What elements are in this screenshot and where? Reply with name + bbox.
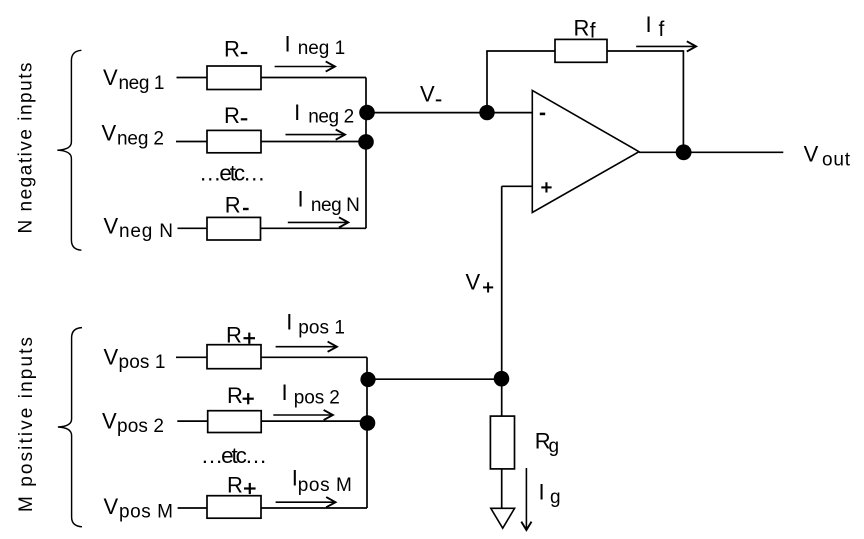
wire R+ row 1 to bus	[261, 356, 367, 358]
svg-text:pos M: pos M	[119, 502, 173, 523]
svg-text:neg N: neg N	[119, 221, 173, 242]
label R_g	[535, 429, 559, 458]
op-amp U1	[532, 90, 639, 212]
svg-text:…etc…: …etc…	[199, 161, 266, 186]
brace N negative inputs	[57, 50, 81, 250]
svg-text:V: V	[466, 270, 481, 295]
label V_neg 1	[103, 65, 165, 94]
svg-text:R: R	[224, 103, 240, 128]
label I_g	[539, 479, 561, 508]
wire bus negative section	[365, 78, 367, 229]
resistor R- row N	[207, 217, 261, 240]
label V- node	[420, 82, 441, 107]
resistor R- row 2	[207, 130, 261, 152]
svg-text:V: V	[804, 142, 819, 167]
label V+ node	[466, 270, 494, 295]
svg-text:neg N: neg N	[311, 195, 360, 216]
wire feedback top left	[486, 50, 555, 52]
svg-text:R: R	[226, 323, 242, 348]
wire V_neg 1 input	[177, 77, 208, 79]
wire R+ row 2 to bus	[261, 420, 367, 422]
svg-text:R: R	[227, 383, 243, 408]
junction dot bus row 2	[358, 134, 374, 150]
svg-text:pos M: pos M	[298, 475, 352, 496]
svg-text:neg 1: neg 1	[298, 38, 346, 59]
label R- row N	[225, 192, 249, 217]
junction dot V+	[494, 371, 510, 387]
svg-text:pos 1: pos 1	[298, 318, 345, 339]
junction dot bus top	[359, 105, 375, 121]
svg-text:pos 2: pos 2	[117, 416, 164, 437]
svg-text:V: V	[104, 494, 119, 519]
svg-text:V: V	[102, 121, 117, 146]
op-amp minus input mark	[540, 113, 545, 116]
svg-text:I: I	[285, 31, 291, 56]
brace M positive inputs	[58, 328, 82, 527]
wire R- row 2 to bus	[261, 141, 366, 143]
wire feedback top right	[607, 50, 683, 52]
label V_pos M	[104, 494, 174, 523]
ground	[491, 508, 515, 528]
label I_pos 2	[282, 380, 340, 409]
resistor R+ row M	[207, 496, 261, 519]
resistor R_g	[490, 416, 514, 469]
svg-text:R: R	[224, 37, 240, 62]
svg-text:R: R	[574, 15, 590, 40]
svg-text:neg 2: neg 2	[308, 106, 354, 127]
svg-text:g: g	[549, 436, 560, 457]
svg-text:R: R	[227, 473, 243, 498]
svg-text:V: V	[420, 82, 435, 107]
wire op-amp output	[639, 151, 783, 153]
wire V_neg N input	[178, 227, 208, 229]
svg-text:V: V	[104, 345, 119, 370]
svg-text:I: I	[282, 380, 288, 405]
svg-text:neg 1: neg 1	[119, 73, 165, 94]
label I_neg 2	[294, 100, 354, 128]
current arrow I_neg 2	[286, 130, 346, 140]
label V_neg 2	[102, 121, 165, 150]
wire V_pos M input	[178, 507, 207, 509]
svg-text:neg 2: neg 2	[117, 128, 164, 149]
current arrow I_f	[636, 41, 696, 51]
svg-text:M positive inputs: M positive inputs	[16, 337, 37, 512]
wire V_pos 2 input	[177, 420, 207, 422]
wire feedback drop to output	[682, 50, 684, 152]
label R+ row M	[227, 473, 256, 498]
svg-text:…etc…: …etc…	[201, 443, 267, 468]
wire V_neg 2 input	[176, 141, 207, 143]
svg-text:V: V	[103, 65, 118, 90]
label V_out	[804, 142, 851, 171]
svg-text:pos 1: pos 1	[119, 352, 166, 373]
svg-text:R: R	[225, 192, 241, 217]
label I_pos M	[292, 466, 352, 496]
current arrow I_pos 2	[273, 410, 333, 420]
junction dot V-	[479, 105, 494, 120]
label I_neg N	[298, 187, 360, 216]
current arrow I_pos 1	[276, 342, 337, 352]
label I_f	[646, 12, 665, 41]
label R+ row 1	[226, 323, 255, 348]
label V_pos 1	[104, 345, 166, 374]
junction dot bus positive row 2	[360, 415, 376, 431]
junction dot bus positive top	[360, 372, 375, 387]
wire V_pos 1 input	[176, 356, 207, 358]
svg-text:pos 2: pos 2	[294, 388, 340, 409]
wire node to V-	[366, 112, 532, 114]
svg-text:I: I	[298, 187, 304, 212]
svg-text:V: V	[102, 408, 117, 433]
current arrow I_neg 1	[275, 61, 335, 71]
wire bus positive section	[366, 357, 368, 508]
junction dot output	[676, 144, 692, 160]
label R- row 1	[224, 37, 247, 62]
svg-text:N negative inputs: N negative inputs	[16, 63, 37, 234]
label R_f	[574, 15, 596, 42]
wire V+ vertical	[501, 186, 503, 416]
current arrow I_pos M	[276, 497, 336, 507]
label R+ row 2	[227, 383, 254, 408]
wire R_g to ground	[501, 469, 503, 509]
wire R- row N to bus	[261, 227, 367, 229]
svg-text:I: I	[294, 100, 300, 125]
svg-text:g: g	[550, 487, 561, 508]
resistor R+ row 2	[208, 411, 262, 433]
wire op-amp plus input	[502, 185, 533, 187]
svg-text:f: f	[659, 18, 665, 41]
svg-text:I: I	[539, 479, 545, 504]
label I_neg 1	[285, 31, 346, 59]
label V_pos 2	[102, 408, 164, 437]
current arrow I_neg N	[288, 217, 349, 227]
label V_neg N	[104, 214, 174, 243]
wire node to V+ junction	[367, 378, 502, 380]
svg-text:I: I	[646, 12, 652, 37]
current arrow I_g	[521, 468, 531, 530]
label R- row 2	[224, 103, 247, 128]
wire R+ row M to bus	[261, 507, 367, 509]
svg-text:f: f	[590, 20, 596, 43]
op-amp plus input mark	[541, 182, 551, 192]
svg-text:V: V	[104, 214, 119, 239]
svg-text:I: I	[286, 310, 292, 335]
resistor R- row 1	[207, 66, 261, 90]
wire feedback riser	[486, 51, 488, 113]
resistor R+ row 1	[207, 345, 261, 369]
resistor R_f	[555, 39, 607, 62]
svg-text:out: out	[822, 150, 851, 171]
wire R- row 1 to bus	[261, 77, 366, 79]
label I_pos 1	[286, 310, 345, 339]
